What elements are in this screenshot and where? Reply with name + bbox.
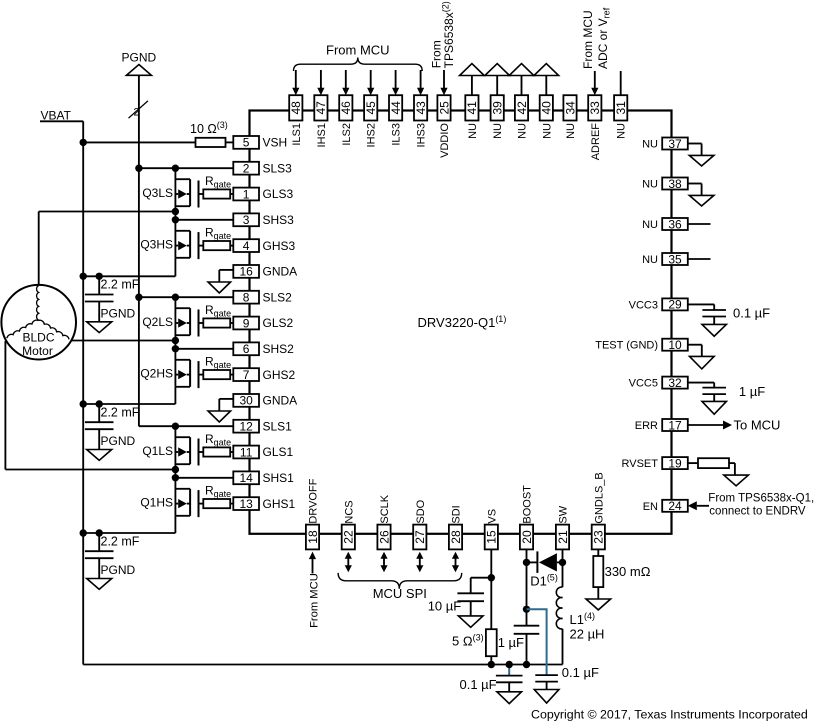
svg-text:47: 47 [314,101,328,115]
pin 46 ILS2 (top) [339,95,353,145]
wire SLS1 row [139,425,233,427]
label MCU SPI [373,586,427,601]
svg-text:GNDA: GNDA [263,265,298,279]
pin 7 GHS2 (left) [233,368,295,382]
wire SHS2 row [175,341,233,349]
motor label BLDC [22,331,54,345]
svg-text:DRV3220-Q1(1): DRV3220-Q1(1) [418,314,507,330]
svg-text:ILS3: ILS3 [391,123,403,146]
svg-text:SLS3: SLS3 [263,161,293,175]
svg-text:SCLK: SCLK [379,494,391,523]
wire Q3HS drain to VBAT [83,258,175,277]
svg-text:13: 13 [239,497,253,511]
svg-text:30: 30 [239,394,253,408]
svg-text:GHS1: GHS1 [263,497,296,511]
transistor Q3LS [142,168,203,211]
wire 10 ohm to VSH [226,141,234,143]
pin 16 GNDA (left) [233,265,297,279]
svg-text:VSH: VSH [263,136,288,150]
svg-text:Q3LS: Q3LS [142,186,173,200]
pin 21 SW (bottom) [556,505,570,549]
svg-text:5 Ω(3): 5 Ω(3) [452,632,484,648]
capacitor 0.1 uF left [460,676,523,704]
pin 9 GLS2 (left) [233,316,293,330]
label From TPS6538x (rotated) [429,1,456,68]
wire phase 2 to motor [72,340,176,342]
wire SHS1 row [175,470,233,478]
svg-text:SLS2: SLS2 [263,290,293,304]
svg-text:36: 36 [668,217,682,231]
svg-text:SHS2: SHS2 [263,342,295,356]
resistor R-VSH 10 ohm [196,138,226,147]
svg-text:32: 32 [668,376,682,390]
svg-text:ADC or Vref: ADC or Vref [596,7,612,69]
pin 45 IHS2 (top) [364,95,378,147]
wire+arrow From MCU into pin 45 [367,70,374,95]
pin 31 NU (top) [614,95,628,139]
svg-text:To MCU: To MCU [734,418,781,433]
svg-text:2.2 mF: 2.2 mF [101,278,140,292]
junction VBAT feed 2 [80,400,87,407]
wire stub above pin 31 [620,71,622,95]
transistor Q2LS [142,297,203,340]
svg-text:9: 9 [243,316,250,330]
svg-text:IHS3: IHS3 [416,123,428,147]
capacitor 2.2 mF bridge 2 + PGND ground [85,400,140,460]
capacitor 0.1 uF right [534,665,599,703]
svg-text:BOOST: BOOST [522,485,534,524]
pin 39 NU (top) [491,95,505,139]
svg-text:8: 8 [243,291,250,305]
label From MCU ADC or Vref (rotated) [581,7,611,69]
junction Q1LS drain/SLS1 [172,423,179,430]
wire SW down [562,549,564,587]
wire Q2HS drain to VBAT [83,387,175,404]
svg-text:42: 42 [515,101,529,115]
junction PGND/SLS3 [135,165,142,172]
svg-text:37: 37 [668,137,682,151]
junction SHS1 [172,474,179,481]
pin 6 SHS2 (left) [233,342,294,356]
svg-text:0.1 µF: 0.1 µF [460,677,497,692]
svg-text:1: 1 [243,187,250,201]
svg-text:VCC3: VCC3 [629,299,658,311]
pin 25 VDDIO (top) [437,95,451,158]
wire+arrow into pin 33 ADREF [591,71,598,95]
svg-text:34: 34 [563,101,577,115]
pin 32 VCC5 (right) [629,376,688,390]
svg-text:Rgate: Rgate [205,432,231,448]
label From MCU (top) [326,43,390,58]
svg-text:GHS2: GHS2 [263,368,296,382]
wire phase 1 to motor [5,341,175,470]
svg-text:NU: NU [616,123,628,139]
pin 40 NU (top) [540,95,554,139]
junction Q2LS source/phase2 [172,337,179,344]
capacitor 2.2 mF bridge 1 + PGND ground [85,529,140,589]
brace under SPI pins [338,573,462,589]
pin 34 NU (top) [563,95,577,139]
svg-text:31: 31 [614,101,628,115]
no-connect up-triangle pin 40 [534,64,559,96]
transistor Q1LS [142,426,203,469]
svg-text:330 mΩ: 330 mΩ [605,564,651,579]
svg-text:2.2 mF: 2.2 mF [101,405,140,419]
wire blue stub left 0.1uF [508,665,510,676]
svg-text:25: 25 [437,101,451,115]
svg-text:46: 46 [339,101,353,115]
svg-text:Q2LS: Q2LS [142,315,173,329]
ground TEST pin [688,345,714,369]
pin 28 SDI (bottom) [449,505,463,549]
resistor Rgate Q2HS [203,354,233,379]
svg-text:NU: NU [517,123,529,139]
motor winding right [38,320,69,339]
double arrow SPI pin 27 [416,552,423,572]
svg-text:PGND: PGND [101,434,136,448]
resistor RVSET to ground [688,458,749,486]
svg-text:RVSET: RVSET [622,458,659,470]
svg-text:From TPS6538x-Q1,: From TPS6538x-Q1, [708,493,814,505]
pin 17 ERR (right) [635,418,688,432]
svg-text:2: 2 [243,162,250,176]
svg-text:Rgate: Rgate [205,225,231,241]
svg-text:VCC5: VCC5 [629,378,658,390]
svg-text:ERR: ERR [635,420,658,432]
junction BOOST/diode [523,559,530,566]
power symbol PGND up-triangle [126,65,151,76]
wire VBAT to 10 ohm [83,141,195,143]
wire SLS3 row [139,167,233,169]
svg-text:45: 45 [364,101,378,115]
pin 22 NCS (bottom) [342,500,356,549]
wire+arrow From MCU into pin 47 [317,70,324,95]
double arrow SPI pin 26 [380,552,387,572]
svg-text:GNDA: GNDA [263,394,298,408]
pin 20 BOOST (bottom) [520,485,534,550]
svg-text:33: 33 [588,101,602,115]
wire VBAT stub [40,120,83,122]
BLDC motor circle [1,285,76,360]
svg-text:21: 21 [556,530,570,544]
pin 35 NU (right) [642,252,688,266]
svg-text:SHS3: SHS3 [263,213,295,227]
wire+arrow From MCU into pin 44 [392,70,399,95]
resistor Rgate Q2LS [203,303,233,328]
svg-text:PGND: PGND [122,51,157,65]
svg-text:24: 24 [668,499,682,513]
wire VS bottom rail [83,664,562,666]
junction PGND/SLS2 [135,294,142,301]
no-connect up-triangle pin 42 [509,64,534,96]
svg-text:4: 4 [243,239,250,253]
junction Q3LS drain/SLS3 [172,165,179,172]
svg-text:7: 7 [243,368,250,382]
svg-text:22: 22 [342,530,356,544]
svg-text:0.1 µF: 0.1 µF [562,665,599,680]
pin 3 SHS3 (left) [233,213,294,227]
svg-text:PGND: PGND [101,563,136,577]
capacitor 0.1 uF at VCC3 [688,304,770,336]
wire stub pin 36 [688,223,711,225]
svg-text:NU: NU [642,179,658,191]
resistor Rgate Q3HS [203,225,233,250]
junction BOOST/rail [523,661,530,668]
IC label DRV3220-Q1 [418,314,507,330]
pin 44 ILS3 (top) [389,95,403,145]
svg-text:43: 43 [414,101,428,115]
svg-text:12: 12 [239,420,253,434]
wire blue branch to 0.1uF [527,609,547,675]
svg-text:GLS1: GLS1 [263,445,294,459]
svg-text:NU: NU [492,123,504,139]
svg-text:EN: EN [643,501,658,513]
pin 14 SHS1 (left) [233,471,294,485]
ground NU pin 37 [688,144,714,167]
svg-text:ADREF: ADREF [590,123,602,161]
wire SLS2 row [139,296,233,298]
svg-text:SW: SW [558,505,570,523]
pin 5 VSH (left) [233,136,287,150]
svg-text:NU: NU [642,139,658,151]
svg-text:Rgate: Rgate [205,303,231,319]
svg-text:14: 14 [239,471,253,485]
svg-text:18: 18 [306,530,320,544]
pin 2 SLS3 (left) [233,161,292,175]
transistor Q1HS [140,478,203,517]
pin 15 VS (bottom) [485,509,499,549]
svg-text:26: 26 [377,530,391,544]
svg-text:ILS1: ILS1 [291,123,303,146]
IC U1 DRV3220-Q1 gate driver body [250,111,672,534]
pin 42 NU (top) [515,95,529,139]
svg-text:SHS1: SHS1 [263,471,295,485]
wire phase 3 to motor [39,212,176,286]
resistor Rgate Q1HS [203,483,233,508]
transistor Q2HS [140,349,203,388]
pin 10 TEST (GND) (right) [595,338,688,352]
junction SHS3 [172,216,179,223]
pin 18 DRVOFF (bottom) [306,478,320,549]
svg-text:11: 11 [240,445,253,459]
svg-text:GNDLS_B: GNDLS_B [593,472,605,523]
svg-text:IHS1: IHS1 [316,123,328,147]
resistor Rgate Q1LS [203,432,233,457]
svg-text:GLS3: GLS3 [263,187,294,201]
svg-text:17: 17 [668,418,682,432]
svg-text:BLDC: BLDC [22,331,54,345]
svg-text:NU: NU [467,123,479,139]
pin 23 GNDLS_B (bottom) [592,472,606,549]
wire+arrow From MCU into pin 48 [292,70,299,95]
wire+arrow ERR to MCU [688,418,781,433]
svg-text:From: From [429,40,443,68]
junction SW/diode [559,559,566,566]
svg-text:35: 35 [668,252,682,266]
svg-text:1 µF: 1 µF [739,384,765,399]
svg-text:NU: NU [541,123,553,139]
junction VS branch [488,574,495,581]
svg-text:PGND: PGND [101,306,136,320]
svg-text:GHS3: GHS3 [263,239,296,253]
pin 24 EN (right) [643,499,688,513]
svg-text:GLS2: GLS2 [263,316,294,330]
svg-text:10 Ω(3): 10 Ω(3) [190,120,228,136]
pin 26 SCLK (bottom) [377,494,391,549]
wire+arrow From MCU into pin 43 [417,70,424,95]
junction rail/left 0.1uF [506,661,513,668]
capacitor 2.2 mF bridge 3 + PGND ground [85,273,140,333]
svg-text:L1(4): L1(4) [570,611,595,627]
junction SHS2 [172,345,179,352]
svg-text:Motor: Motor [22,344,53,358]
svg-text:0.1 µF: 0.1 µF [733,305,770,320]
bus slash 2 marker [129,101,148,119]
pin 41 NU (top) [465,95,479,139]
svg-text:SLS1: SLS1 [263,419,293,433]
svg-text:19: 19 [668,456,682,470]
label From MCU (bottom, rotated) [308,573,320,628]
svg-text:NU: NU [642,219,658,231]
pin 29 VCC3 (right) [629,298,688,312]
wire+arrow From MCU into DRVOFF [309,552,316,574]
svg-text:6: 6 [243,342,250,356]
svg-text:ILS2: ILS2 [341,123,353,146]
svg-text:Rgate: Rgate [205,354,231,370]
wire 5 ohm to rail [488,656,495,668]
pin 12 SLS1 (left) [233,419,292,433]
motor winding left [7,320,38,338]
pin 11 GLS1 (left) [233,445,293,459]
pin 13 GHS1 (left) [233,497,295,511]
ground PGND top label [122,51,157,65]
motor label Motor [22,344,53,358]
pin 8 SLS2 (left) [233,290,292,304]
svg-text:IHS2: IHS2 [366,123,378,147]
svg-text:Rgate: Rgate [205,174,231,190]
svg-text:48: 48 [289,101,303,115]
svg-text:NU: NU [565,123,577,139]
svg-text:Q2HS: Q2HS [140,367,173,381]
diode D1 [527,551,563,588]
wire+arrow into pin 25 VDDIO [440,70,447,95]
svg-text:NU: NU [642,254,658,266]
resistor Rgate Q3LS [203,174,233,199]
junction Q1LS source/phase1 [172,466,179,473]
svg-text:connect to ENDRV: connect to ENDRV [709,505,806,517]
svg-text:1 µF: 1 µF [498,635,524,650]
svg-text:TEST (GND): TEST (GND) [595,340,658,352]
svg-text:TPS6538x(2): TPS6538x(2) [441,1,457,68]
capacitor 1 uF on BOOST leg [498,626,540,650]
svg-text:VDDIO: VDDIO [439,123,451,158]
resistor 10 ohm label [190,120,228,136]
junction BOOST blue branch [523,606,530,613]
resistor 330 mOhm on GNDLS_B [586,549,651,610]
svg-text:27: 27 [413,530,427,544]
svg-text:DRVOFF: DRVOFF [308,478,320,523]
junction VBAT feed 1 [80,529,87,536]
pin 47 IHS1 (top) [314,95,328,147]
inductor L1 22uH [556,587,604,664]
double arrow SPI pin 28 [452,552,459,572]
svg-text:29: 29 [668,298,682,312]
svg-text:From MCU: From MCU [326,43,390,58]
wire Q1HS drain to VBAT [83,516,175,533]
wire+arrow From MCU into pin 46 [342,70,349,95]
svg-text:2.2 mF: 2.2 mF [101,534,140,548]
pin 43 IHS3 (top) [414,95,428,147]
node VBAT label [41,109,72,123]
svg-text:22 µH: 22 µH [570,627,605,642]
junction VBAT feed 3 [80,273,87,280]
pin 4 GHS3 (left) [233,239,295,253]
svg-text:D1(5): D1(5) [530,572,558,588]
svg-text:10 µF: 10 µF [428,598,462,613]
wire PGND vertical [138,75,140,426]
svg-text:Copyright © 2017, Texas Instru: Copyright © 2017, Texas Instruments Inco… [531,708,808,722]
pin 27 SDO (bottom) [413,499,427,549]
svg-text:Q1LS: Q1LS [142,444,173,458]
svg-text:VS: VS [486,509,498,524]
svg-text:41: 41 [465,101,479,115]
brace over ILS/IHS pins [294,58,423,72]
svg-text:38: 38 [668,177,682,191]
no-connect up-triangle pin 39 [485,64,510,96]
pin 1 GLS3 (left) [233,187,293,201]
svg-text:From MCU: From MCU [308,573,320,628]
junction Q2LS drain/SLS2 [172,294,179,301]
svg-text:10: 10 [668,338,682,352]
svg-text:44: 44 [389,101,403,115]
resistor 5 ohm [452,629,497,656]
pin 38 NU (right) [642,177,688,191]
wire VBAT vertical rail [82,121,84,664]
svg-text:Rgate: Rgate [205,483,231,499]
pin 30 GNDA (left) [233,394,297,408]
svg-text:40: 40 [540,101,554,115]
svg-text:5: 5 [243,136,250,150]
pin 36 NU (right) [642,217,688,231]
svg-text:3: 3 [243,213,250,227]
capacitor 1 uF at VCC5 [688,383,765,415]
wire VS down [490,549,492,629]
svg-text:28: 28 [449,530,463,544]
wire SHS3 row [175,212,233,220]
svg-text:SDO: SDO [415,499,427,523]
svg-text:From MCU: From MCU [581,10,595,69]
pin 37 NU (right) [642,137,688,151]
transistor Q3HS [140,220,203,259]
wire+arrow into EN pin [688,501,709,510]
svg-text:15: 15 [485,530,499,544]
label From TPS6538x-Q1 connect to ENDRV [708,493,814,518]
motor winding top [37,286,39,321]
ground GNDA pin16 [208,270,233,293]
svg-text:16: 16 [239,265,253,279]
pin 33 ADREF (top) [588,95,602,160]
svg-text:NCS: NCS [343,500,355,523]
junction VBAT/VSH [80,139,87,146]
svg-text:20: 20 [520,530,534,544]
junction Q3LS source/phase3 [172,208,179,215]
wire BOOST down [526,549,528,664]
capacitor 10 uF on VS [428,578,492,628]
copyright notice [531,708,808,722]
double arrow SPI pin 22 [345,552,352,572]
svg-text:2: 2 [134,107,140,119]
ground NU pin 38 [688,184,714,207]
